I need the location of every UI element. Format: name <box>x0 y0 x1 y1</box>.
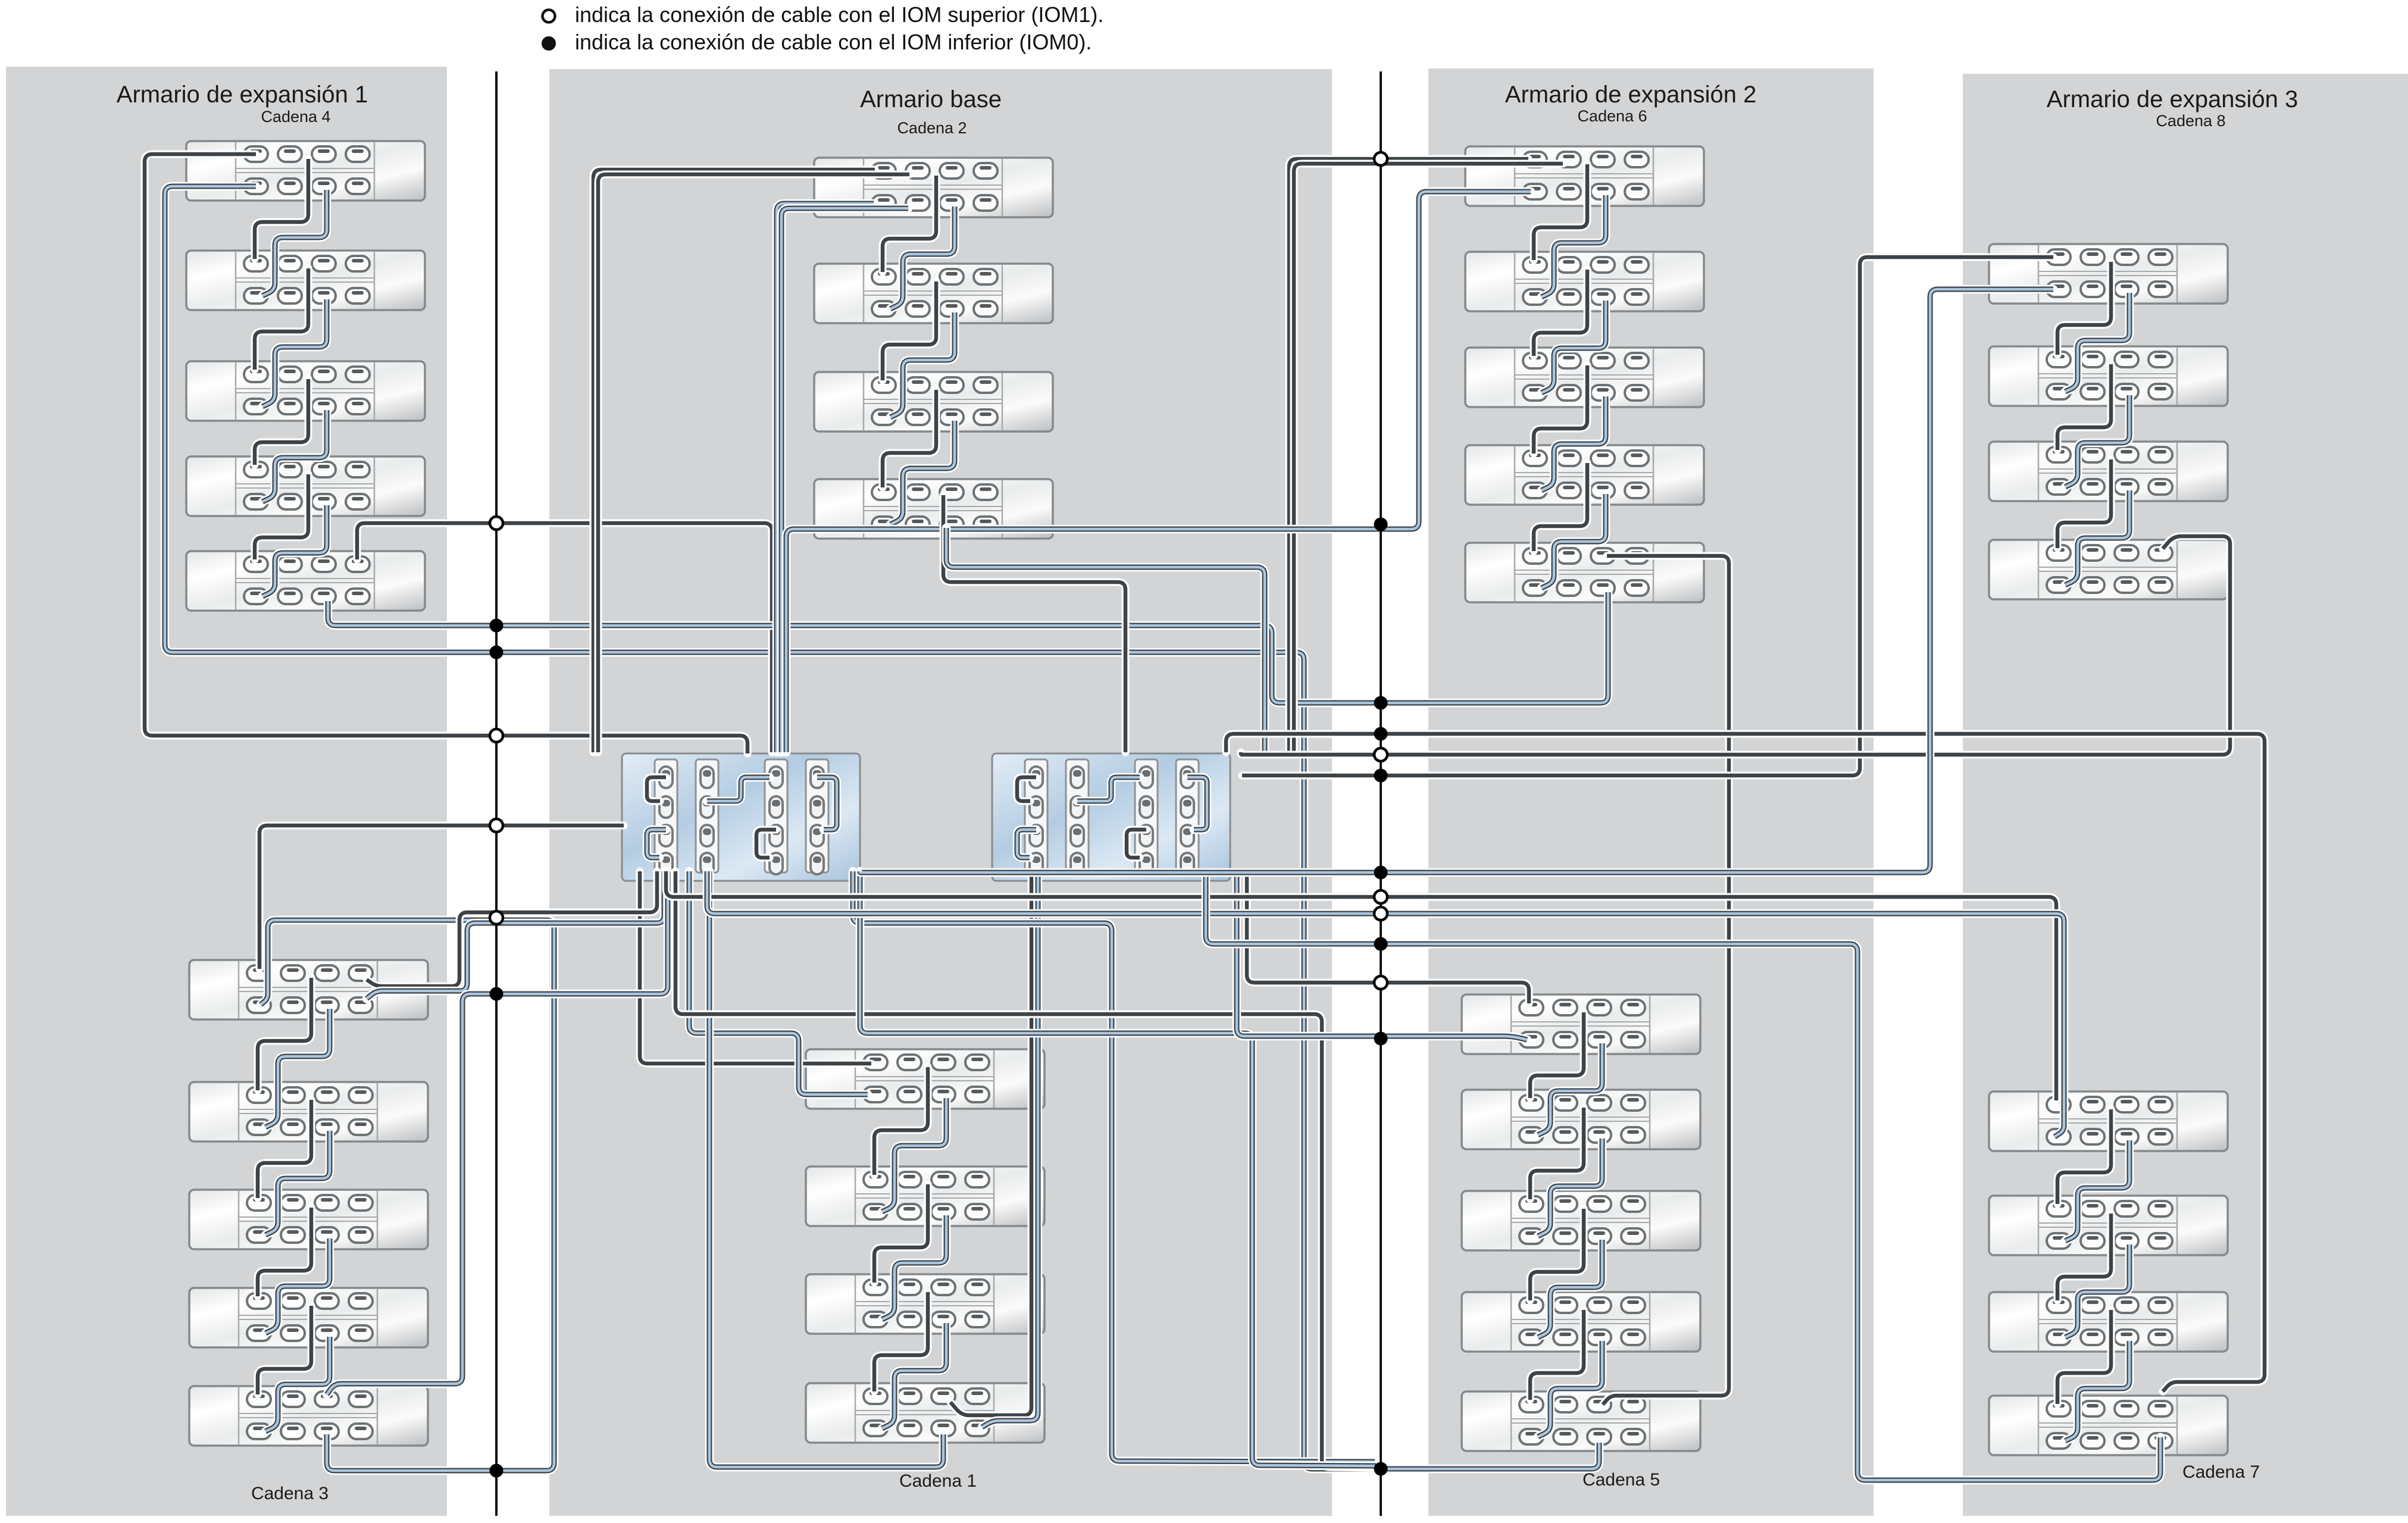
disk shelf P4T-2 <box>1989 346 2228 406</box>
svg-text:indica la conexión de cable co: indica la conexión de cable con el IOM i… <box>575 30 1092 54</box>
legend open circle IOM1 <box>543 10 555 23</box>
junction open dot line2 y1507 <box>1374 890 1387 903</box>
disk shelf P2B-1 <box>806 1049 1044 1109</box>
disk shelf P3B-3 <box>1462 1191 1700 1250</box>
wire stair-dark P4B2-3 <box>2057 1214 2111 1300</box>
wire stair-dark P2T2-3 <box>883 282 936 380</box>
wire ctl2-F4 loop <box>1226 734 2265 1391</box>
wire stair-blue P4B3-4 <box>2065 1341 2129 1441</box>
wire stair-dark P3T4-5 <box>1534 463 1587 551</box>
wire ctl1-D1 IOM0 p3 <box>367 871 664 999</box>
svg-text:Cadena 3: Cadena 3 <box>251 1484 329 1503</box>
disk shelf P1B-3 <box>189 1190 428 1249</box>
disk shelf P2T-4 <box>814 479 1053 539</box>
wire stair-dark P1T2-3 <box>255 268 308 370</box>
wire ctl1-F1 IOM1 <box>666 871 2056 1100</box>
junction filled dot line2 y1586 <box>1374 937 1388 951</box>
wire stair-blue P3B3-4 <box>1538 1240 1602 1337</box>
wire stair-dark P4T2-3 <box>2057 364 2111 450</box>
wire ctl hook a 1045 <box>647 777 666 801</box>
wire ctl hook e 1667 <box>1017 830 1036 858</box>
wire stair-blue P2B2-3 <box>882 1215 946 1319</box>
wire stair-blue P3T2-3 <box>1541 301 1606 393</box>
disk shelf P1B-2 <box>189 1082 428 1142</box>
wire stair-dark P2B1-2 <box>874 1067 928 1175</box>
wire P1S5-IOM1 east loop <box>357 523 772 752</box>
wire ctl1-B1 IOM0 p0 <box>777 204 874 752</box>
wire ctl1 trunk 1704 <box>676 871 1375 1468</box>
junction open dot line1 y1236 <box>490 729 503 742</box>
wire stair-dark P3B1-2 <box>1530 1012 1584 1098</box>
svg-text:Cadena 8: Cadena 8 <box>2156 112 2225 130</box>
wire stair-blue P3T3-4 <box>1541 396 1606 490</box>
junction filled dot line2 y1303 <box>1374 769 1388 783</box>
junction filled dot line2 y1745 <box>1374 1032 1388 1046</box>
wire stair-blue P1T4-5 <box>262 505 327 596</box>
disk shelf P3B-5 <box>1462 1391 1700 1451</box>
disk shelf P2B-4 <box>806 1383 1044 1443</box>
wire B4-ctl2 IOM1 <box>943 495 1125 752</box>
wire stair-blue P3B2-3 <box>1538 1139 1602 1236</box>
wire ctl hook c 1667 <box>1127 830 1146 858</box>
wire ctl2-H4 loop <box>1241 536 2230 755</box>
disk shelf P2B-3 <box>806 1274 1044 1334</box>
junction filled dot line2 y881 <box>1374 518 1388 531</box>
disk shelf P3T-2 <box>1465 252 1704 311</box>
junction filled dot line2 y2468 <box>1374 1462 1388 1476</box>
svg-text:Armario de expansión 1: Armario de expansión 1 <box>117 82 368 108</box>
wire stair-dark P1B2-3 <box>258 1100 311 1198</box>
controller 2 <box>992 753 1230 881</box>
junction filled dot line1 y1096 <box>490 646 504 659</box>
wire ctl hook c 1045 <box>756 830 776 858</box>
wire ctl1-B1 IOM0 p1 <box>781 208 908 752</box>
junction open dot line2 y1535 <box>1374 907 1387 920</box>
junction filled dot line2 y1181 <box>1374 696 1388 710</box>
wire stair-blue P3B4-5 <box>1538 1341 1602 1437</box>
disk shelf P3T-4 <box>1465 445 1704 505</box>
wire G5-E5 loop <box>1603 556 1729 1405</box>
disk shelf P3B-1 <box>1462 995 1700 1054</box>
wire stair-dark P4B1-2 <box>2057 1109 2111 1204</box>
svg-text:indica la conexión de cable co: indica la conexión de cable con el IOM s… <box>575 2 1103 27</box>
wire stair-dark P4T3-4 <box>2057 459 2111 548</box>
wire ctl hook d 1667 <box>1187 777 1207 830</box>
disk shelf P3T-1 <box>1465 146 1704 206</box>
disk shelf P3B-2 <box>1462 1090 1700 1149</box>
wire stair-dark P2B2-3 <box>874 1184 928 1283</box>
panel Armario de expansion 3 <box>1963 74 2408 1516</box>
wire ctl1 trunk 1736-E5 <box>860 871 1376 1466</box>
junction filled dot line1 y1670 <box>490 987 504 1001</box>
rack boundary line 1 <box>495 71 498 1516</box>
wire stair-dark P3B2-3 <box>1530 1108 1584 1199</box>
junction open dot line2 y267 <box>1374 152 1387 165</box>
wire stair-dark P1B4-5 <box>258 1306 311 1394</box>
svg-text:Cadena 2: Cadena 2 <box>897 119 967 137</box>
svg-text:Cadena 6: Cadena 6 <box>1577 107 1647 125</box>
wire ctl hook e 1045 <box>647 830 666 858</box>
disk shelf P2T-1 <box>814 158 1053 217</box>
wire ctl1-band 1868 <box>853 871 1375 1462</box>
disk shelf P4T-4 <box>1989 540 2228 599</box>
wire trunk S5-G5 IOM0 <box>328 592 1608 703</box>
wire ctl2-H1 IOM1 <box>1242 257 2053 775</box>
wire stair-dark P3T3-4 <box>1534 365 1587 454</box>
svg-text:Cadena 7: Cadena 7 <box>2182 1462 2260 1482</box>
wire stair-blue P1T1-2 <box>262 190 327 296</box>
wire ctl1-H1 IOM0 via 1466 <box>860 289 2053 872</box>
wire stair-dark P1B3-4 <box>258 1208 311 1296</box>
junction filled dot line1 y1051 <box>490 619 504 633</box>
legend filled circle IOM0 <box>542 36 556 51</box>
junction open dot line1 y1387 <box>490 819 503 832</box>
disk shelf P4T-1 <box>1989 244 2228 304</box>
wire B4-ctl2 IOM0 <box>946 528 1265 752</box>
disk shelf P1B-4 <box>189 1288 428 1347</box>
wire C4-ctl1 bottom IOM0 <box>709 871 943 1467</box>
svg-text:Armario base: Armario base <box>860 86 1002 112</box>
wire stair-dark P3T2-3 <box>1534 270 1587 356</box>
wire stair-blue P1B4-5 <box>265 1337 330 1431</box>
junction filled dot line2 y1233 <box>1374 727 1388 741</box>
disk shelf P2T-2 <box>814 264 1053 323</box>
wire stair-blue P4T2-3 <box>2065 395 2129 487</box>
wire stair-blue P3B1-2 <box>1538 1043 1602 1135</box>
wire P1S1-IOM0 to E5 via 1096 <box>165 186 1599 1469</box>
wire stair-dark P2T1-2 <box>883 176 936 272</box>
wire ctl1-D5 loop <box>327 871 668 1394</box>
wire ctl2-C4b <box>982 874 1038 1427</box>
wire stair-blue P4T1-2 <box>2065 293 2129 392</box>
wire stair-blue P4B2-3 <box>2065 1244 2129 1337</box>
junction filled dot line2 y1466 <box>1374 866 1388 880</box>
wire stair-dark P4T1-2 <box>2057 262 2111 355</box>
wire ctl2-G1 IOM1 p0 <box>1289 159 1528 752</box>
wire stair-blue P2T3-4 <box>890 421 955 524</box>
wire stair-dark P3T1-2 <box>1534 164 1587 260</box>
wire stair-blue P1B3-4 <box>265 1239 330 1333</box>
junction open dot line1 y879 <box>490 517 503 530</box>
wire ctl1-D1 IOM1 p3 <box>367 871 657 986</box>
wire ctl2-C4 IOM1 <box>950 874 1031 1415</box>
wire stair-blue P3T1-2 <box>1541 195 1606 297</box>
wire D5-D1 chain return <box>261 920 554 1471</box>
wire stair-blue P1T3-4 <box>262 410 327 502</box>
svg-text:Cadena 1: Cadena 1 <box>899 1471 977 1491</box>
wire stair-dark P3B3-4 <box>1530 1209 1584 1300</box>
wire stair-dark P4B3-4 <box>2057 1310 2111 1404</box>
wire stair-dark P1T4-5 <box>255 474 308 559</box>
svg-text:Armario de expansión 3: Armario de expansión 3 <box>2047 86 2298 112</box>
junction open dot line2 y1268 <box>1374 748 1387 761</box>
wire stair-dark P1B1-2 <box>258 978 311 1090</box>
panel Armario de expansion 2 <box>1428 68 1874 1516</box>
disk shelf P4B-4 <box>1989 1396 2228 1455</box>
wire stair-blue P2T2-3 <box>890 312 955 417</box>
wire ctl1-D1 IOM1 p0 <box>259 825 624 969</box>
wire stair-dark P1T1-2 <box>255 159 308 259</box>
disk shelf P3T-5 <box>1465 543 1704 602</box>
disk shelf P4B-3 <box>1989 1292 2228 1352</box>
wire ctl1-C1 IOM1 <box>640 871 871 1064</box>
disk shelf P1T-1 <box>186 141 425 201</box>
wire ctl2-E1 IOM0 <box>1237 872 1527 1040</box>
wire stair-blue P1T2-3 <box>262 299 327 406</box>
wire ctl hook b 1045 <box>707 777 770 801</box>
controller 1 <box>622 753 860 881</box>
disk shelf P1T-3 <box>186 361 425 421</box>
wire stair-dark P2T3-4 <box>883 390 936 487</box>
wire stair-dark P2B3-4 <box>874 1292 928 1391</box>
disk shelf P2T-3 <box>814 372 1053 431</box>
disk shelf P3T-3 <box>1465 348 1704 407</box>
junction open dot line1 y1542 <box>490 911 503 924</box>
junction filled dot line1 y2471 <box>490 1464 504 1478</box>
wire stair-dark P1T3-4 <box>255 379 308 465</box>
wire ctl2-E1 IOM1 <box>1247 872 1529 1003</box>
wire ctl1-F1 IOM0 <box>707 871 2064 1137</box>
wire P1S1-IOM1 to ctl1 via 1236 <box>145 154 748 753</box>
disk shelf P4B-2 <box>1989 1196 2228 1255</box>
disk shelf P4B-1 <box>1989 1092 2228 1151</box>
wire ctl hook b 1667 <box>1077 777 1140 801</box>
svg-text:Cadena 5: Cadena 5 <box>1583 1470 1660 1490</box>
wire stair-blue P3T4-5 <box>1541 494 1606 588</box>
disk shelf P1T-5 <box>186 551 425 611</box>
wire stair-blue P1B1-2 <box>265 1009 330 1127</box>
junction open dot line2 y1651 <box>1374 976 1387 989</box>
wire stair-blue P1B2-3 <box>265 1131 330 1235</box>
wire ctl1-G1 IOM0 <box>786 192 1531 752</box>
panel Armario base <box>549 69 1332 1516</box>
wire ctl hook d 1045 <box>817 777 837 830</box>
wire stair-blue P4T3-4 <box>2065 490 2129 585</box>
rack boundary line 2 <box>1380 71 1382 1516</box>
wire ctl2-G1 IOM1 p1 <box>1294 164 1563 752</box>
panel Armario de expansion 1 <box>6 67 447 1516</box>
wire ctl2-F4 IOM0 <box>1206 872 2160 1480</box>
disk shelf P4T-3 <box>1989 442 2228 501</box>
disk shelf P1B-1 <box>189 960 428 1019</box>
wire ctl hook a 1667 <box>1017 777 1036 801</box>
wire stair-blue P4B1-2 <box>2065 1140 2129 1241</box>
disk shelf P1B-5 <box>189 1386 428 1446</box>
svg-text:Armario de expansión 2: Armario de expansión 2 <box>1505 82 1756 108</box>
wire stair-dark P3B4-5 <box>1530 1310 1584 1400</box>
disk shelf P2B-2 <box>806 1167 1044 1226</box>
wire ctl1-C1 IOM0 <box>689 871 868 1094</box>
disk shelf P1T-2 <box>186 251 425 310</box>
wire stair-blue P2T1-2 <box>890 207 955 309</box>
wire stair-blue P2B1-2 <box>882 1098 946 1212</box>
wire stair-blue P2B3-4 <box>882 1323 946 1428</box>
svg-text:Cadena 4: Cadena 4 <box>261 108 330 126</box>
disk shelf P3B-4 <box>1462 1292 1700 1352</box>
wire ctl1-B1 IOM1 p1 <box>598 174 909 752</box>
wire ctl1-B1 IOM1 p0 <box>593 170 875 752</box>
disk shelf P1T-4 <box>186 456 425 516</box>
